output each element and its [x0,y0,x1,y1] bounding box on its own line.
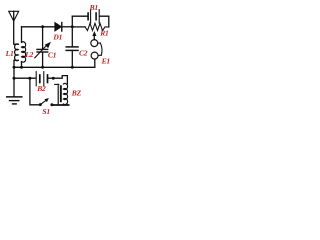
svg-text:R1: R1 [99,29,108,38]
inductor L1 [15,44,19,61]
arrowhead of S1 lever [44,98,49,102]
svg-text:BZ: BZ [71,88,82,97]
junction node dots [41,25,44,28]
battery B2 [35,72,37,86]
arrow of variable capacitor C1 [35,45,47,58]
wire E1 bottom to rail1 [94,59,96,67]
wire L1 bottom to ground riser [14,60,18,67]
resistor R1 [85,23,109,30]
svg-text:E1: E1 [101,56,110,65]
svg-text:S1: S1 [42,107,50,116]
svg-text:L1: L1 [5,49,14,58]
svg-text:L2: L2 [24,50,33,59]
buzzer BZ armature [55,83,59,85]
wire ground riser [13,67,15,96]
wire rail1 y67.3 [14,66,95,68]
wire L2 top from top rail [21,27,23,43]
wire rail to R1 [72,26,85,28]
wire top rail left [22,26,55,28]
wire B1 left vertical / C2 vertical [71,16,73,46]
arrowhead of C1 arrow [45,42,51,49]
wire L2 bottom to rail1 [21,62,23,68]
diode D1 [55,23,61,31]
buzzer BZ coil [63,84,67,105]
wire B1 top left [72,15,87,17]
wire B2 to buzzer top [48,76,67,84]
svg-text:B2: B2 [36,84,46,93]
battery B1 [87,13,89,20]
potentiometer wiper arrow [93,35,95,40]
capacitor C1 [37,48,48,50]
svg-text:B1: B1 [89,3,98,12]
wire antenna stem down to L1 top [14,11,19,44]
capacitor C2 [66,46,78,48]
switch S1 lever [40,100,46,105]
ground [7,96,22,98]
arrowhead of R1 wiper [92,31,96,36]
wire B2 row y78.2 [14,77,36,79]
svg-text:C2: C2 [79,48,88,57]
svg-text:D1: D1 [52,33,62,42]
earphone E1 [91,40,98,47]
wire S1 left branch [30,78,40,105]
wire C1 branch [42,27,44,49]
wire diode to B1 node [62,26,73,28]
wire bottom rail right of S1 [52,104,69,106]
svg-text:C1: C1 [48,51,56,60]
buzzer BZ core [60,85,62,102]
inductor L2 [22,42,26,62]
wire B1 top right [100,16,109,27]
antenna [9,11,19,21]
